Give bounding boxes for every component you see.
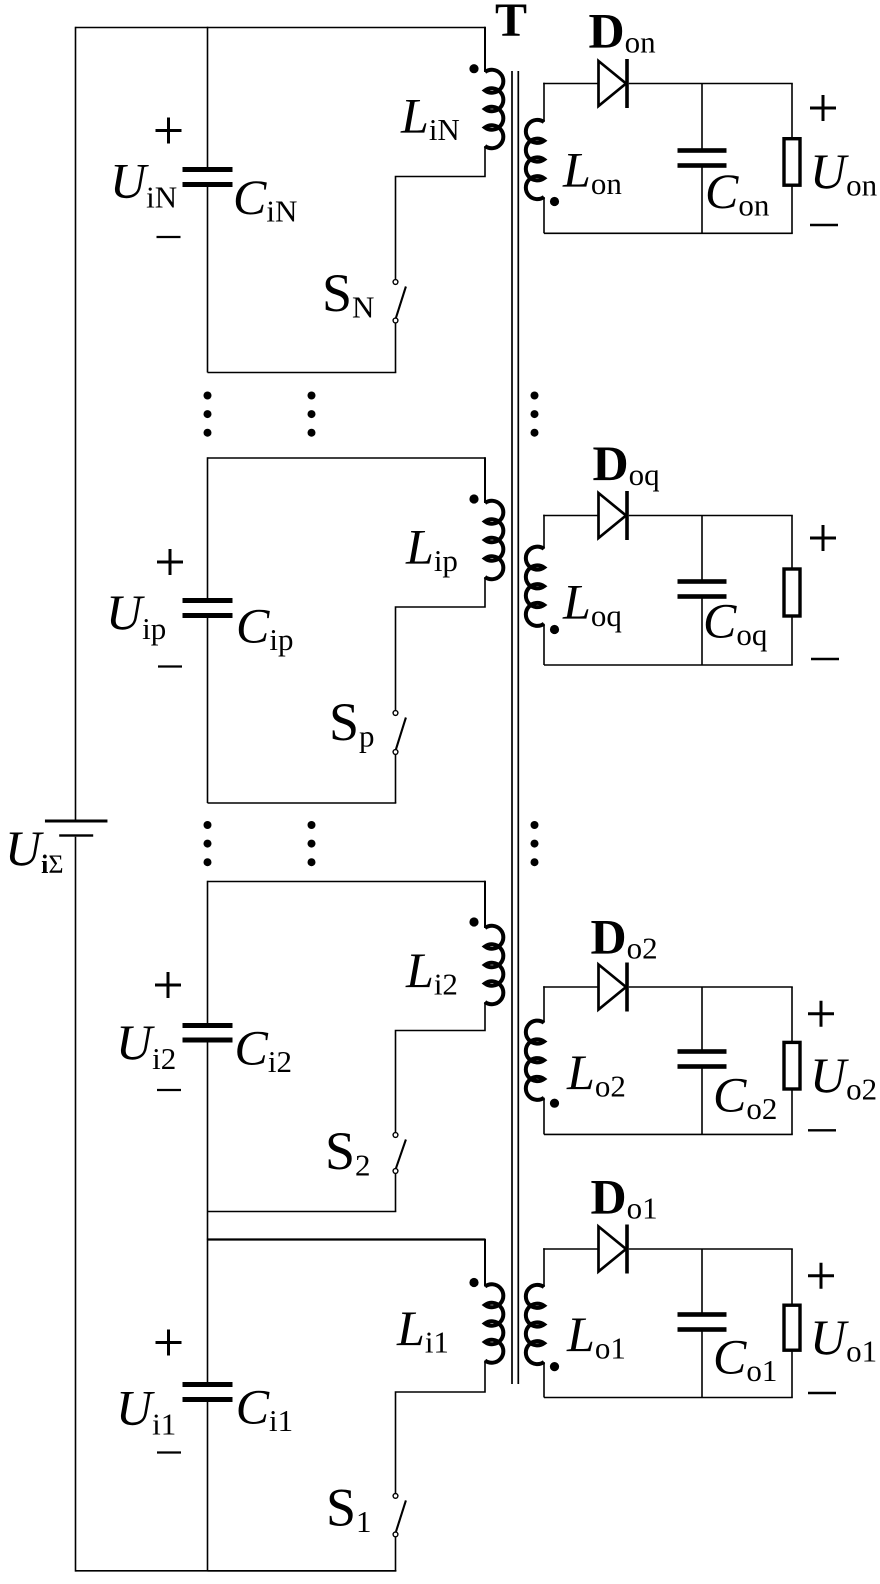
minus polarity mark of U_i1 [157, 1451, 181, 1453]
diode D_o1 [599, 1225, 629, 1274]
polarity dot of winding L_ip [469, 494, 478, 503]
wire: right rail above load resistor [791, 516, 793, 570]
wire: primary branch down to winding L_i2 [484, 881, 486, 928]
switch S_2 [393, 1133, 406, 1174]
plus polarity mark of output q [810, 525, 836, 551]
capacitor C_oq [678, 579, 727, 584]
wire: top rail of input cell p [208, 457, 486, 459]
wire: bottom rail of input cell 1 [208, 1570, 397, 1572]
inductor L_i2 (transformer primary winding) [485, 926, 503, 1005]
wire: top rail of input cell 2 [208, 881, 486, 883]
polarity dot of winding L_o1 [550, 1362, 559, 1371]
polarity dot of winding L_iN [469, 64, 478, 73]
wire: capacitor C_o1 top lead [701, 1249, 703, 1315]
wire: switch S_p to bottom rail [395, 754, 397, 803]
wire: diode cathode to output node [629, 83, 793, 85]
svg-text:Doq: Doq [593, 435, 660, 492]
plus polarity mark of U_i1 [156, 1330, 182, 1356]
wire: capacitor C_i1 bottom lead [207, 1400, 209, 1571]
wire: right rail below load resistor [791, 1089, 793, 1134]
svg-text:S1: S1 [326, 1478, 372, 1540]
svg-text:Ui1: Ui1 [116, 1380, 176, 1442]
wire: winding L_oq bottom lead [543, 624, 545, 665]
wire: right rail above load resistor [791, 987, 793, 1042]
plus polarity mark of output 2 [808, 1001, 834, 1027]
svg-text:UiΣ: UiΣ [5, 820, 63, 879]
load resistor of output 1 [784, 1305, 800, 1350]
polarity dot of winding L_oq [550, 625, 559, 634]
load resistor of output n [784, 139, 800, 186]
switch S_p [393, 711, 406, 755]
svg-text:Co2: Co2 [713, 1067, 777, 1127]
wire: capacitor C_o2 bottom lead [701, 1067, 703, 1135]
svg-text:Uon: Uon [810, 143, 878, 203]
svg-text:Lon: Lon [562, 142, 622, 202]
minus polarity mark of U_ip [158, 665, 182, 667]
wire: capacitor C_ip top lead [207, 457, 209, 600]
wire: switch S_1 to bottom rail [395, 1537, 397, 1571]
svg-text:LiN: LiN [400, 88, 460, 148]
wire: diode cathode to output node [629, 986, 793, 988]
wire: winding bottom to switch S_N [396, 146, 486, 280]
plus polarity mark of U_iN [156, 118, 182, 144]
wire: top rail of input cell 1 [208, 1238, 486, 1240]
svg-text:Li1: Li1 [396, 1300, 449, 1360]
svg-text:Ci2: Ci2 [235, 1020, 292, 1080]
svg-text:Coq: Coq [703, 593, 767, 653]
capacitor C_i2 [183, 1023, 233, 1028]
inductor L_iN (transformer primary winding) [485, 70, 503, 149]
wire: diode cathode to output node [629, 515, 793, 517]
wire: secondary branch top lead of winding L_oq [543, 515, 545, 549]
svg-text:Cip: Cip [236, 598, 293, 658]
wire: primary branch down to winding L_iN [484, 27, 486, 72]
minus polarity mark of output q [811, 658, 839, 660]
svg-text:Lo2: Lo2 [566, 1044, 626, 1104]
svg-text:S2: S2 [325, 1121, 371, 1183]
svg-text:Do2: Do2 [591, 909, 658, 966]
wire: capacitor C_i2 top lead [207, 881, 209, 1026]
wire: winding L_o1 bottom lead [543, 1362, 545, 1398]
svg-text:Sp: Sp [329, 692, 375, 754]
continuation dots between cells N and p, left column [204, 392, 212, 437]
wire: bottom rail of output cell 2 [544, 1133, 793, 1135]
svg-text:Ci1: Ci1 [236, 1379, 293, 1439]
svg-text:Uip: Uip [106, 584, 166, 646]
svg-text:Lip: Lip [405, 519, 458, 579]
minus polarity mark of output n [810, 224, 838, 226]
wire: capacitor C_o2 top lead [701, 987, 703, 1052]
wire: anode lead to diode D_oq [543, 515, 598, 517]
wire: switch S_2 to bottom rail [395, 1173, 397, 1211]
wire: capacitor C_on bottom lead [701, 166, 703, 234]
wire: capacitor C_o1 bottom lead [701, 1330, 703, 1398]
minus polarity mark of U_iN [157, 236, 181, 238]
wire: capacitor C_ip bottom lead [207, 616, 209, 804]
capacitor C_o2 [678, 1049, 727, 1054]
inductor L_oq (transformer secondary winding) [526, 547, 544, 626]
wire: capacitor C_on top lead [701, 84, 703, 151]
svg-text:Co1: Co1 [713, 1329, 777, 1389]
wire: winding L_o2 bottom lead [543, 1098, 545, 1135]
diode D_on [599, 59, 629, 108]
capacitor C_ip [183, 598, 233, 603]
wire: anode lead to diode D_on [543, 83, 598, 85]
svg-text:Li2: Li2 [405, 942, 458, 1002]
wire: bottom rail of input cell p [208, 802, 397, 804]
wire: capacitor C_iN bottom lead [207, 185, 209, 373]
svg-text:Don: Don [589, 3, 657, 60]
switch S_N [393, 280, 406, 323]
wire: switch S_N to bottom rail [395, 323, 397, 373]
continuation dots between cells N and p, middle column [308, 392, 316, 437]
svg-text:Ui2: Ui2 [116, 1014, 176, 1076]
wire: bottom rail of output cell 1 [544, 1397, 793, 1399]
svg-text:SN: SN [322, 263, 374, 325]
wire: capacitor C_i1 top lead [207, 1239, 209, 1385]
wire: secondary branch top lead of winding L_o1 [543, 1248, 545, 1287]
capacitor C_i1 [183, 1382, 233, 1387]
inductor L_ip (transformer primary winding) [485, 501, 503, 580]
plus polarity mark of output 1 [808, 1263, 834, 1289]
svg-text:Lo1: Lo1 [566, 1306, 626, 1366]
load resistor of output q [784, 569, 800, 616]
wire: winding bottom to switch S_1 [396, 1361, 486, 1494]
wire: anode lead to diode D_o2 [543, 986, 598, 988]
wire: diode cathode to output node [629, 1248, 793, 1250]
svg-text:Loq: Loq [562, 574, 622, 634]
svg-text:T: T [495, 0, 527, 47]
wire: main bottom rail [76, 1570, 397, 1572]
svg-text:UiN: UiN [110, 153, 177, 215]
switch S_1 [393, 1494, 406, 1537]
transformer core T [511, 71, 513, 1384]
wire: bottom rail of output cell n [544, 232, 793, 234]
wire: winding L_on bottom lead [543, 197, 545, 233]
load resistor of output 2 [784, 1042, 800, 1089]
wire: capacitor C_i2 bottom lead [207, 1040, 209, 1212]
continuation dots between cells N and p, secondary column [531, 392, 539, 437]
wire: bottom rail of input cell N [208, 372, 397, 374]
plus polarity mark of U_i2 [155, 972, 181, 998]
diode D_o2 [599, 963, 629, 1012]
inductor L_on (transformer secondary winding) [526, 120, 544, 199]
svg-text:CiN: CiN [233, 169, 297, 229]
svg-text:Do1: Do1 [591, 1169, 658, 1226]
wire: primary branch down to winding L_i1 [484, 1239, 486, 1287]
wire: capacitor C_iN top lead [207, 27, 209, 170]
wire: anode lead to diode D_o1 [543, 1248, 598, 1250]
svg-text:Con: Con [705, 163, 770, 223]
wire: right rail below load resistor [791, 185, 793, 233]
wire: secondary branch top lead of winding L_on [543, 83, 545, 122]
polarity dot of winding L_on [550, 197, 559, 206]
minus polarity mark of output 2 [808, 1129, 836, 1131]
svg-text:Uo2: Uo2 [810, 1047, 877, 1107]
wire: right rail above load resistor [791, 84, 793, 139]
polarity dot of winding L_i1 [469, 1278, 478, 1287]
wire: bottom rail of input cell 2 [208, 1211, 397, 1213]
voltage source U_iSigma (battery) [45, 820, 107, 837]
inductor L_o1 (transformer secondary winding) [526, 1285, 544, 1364]
svg-text:Uo1: Uo1 [810, 1309, 877, 1369]
wire: left rail from source down to bottom rail [75, 837, 77, 1572]
polarity dot of winding L_i2 [469, 917, 478, 926]
wire: link between cell 2 bottom rail and cell 1 top rail [207, 1212, 209, 1240]
minus polarity mark of output 1 [808, 1392, 836, 1394]
polarity dot of winding L_o2 [550, 1099, 559, 1108]
wire: capacitor C_oq top lead [701, 516, 703, 582]
continuation dots between cells p and 2, left column [204, 821, 212, 866]
wire: right rail above load resistor [791, 1249, 793, 1305]
inductor L_i1 (transformer primary winding) [485, 1284, 503, 1363]
plus polarity mark of U_ip [157, 549, 183, 575]
capacitor C_on [678, 148, 727, 153]
minus polarity mark of U_i2 [157, 1089, 181, 1091]
wire: capacitor C_oq bottom lead [701, 597, 703, 666]
wire: right rail below load resistor [791, 616, 793, 665]
continuation dots between cells p and 2, secondary column [531, 821, 539, 866]
wire: left rail from top rail down to source U_iSigma [75, 27, 77, 820]
capacitor C_iN [183, 167, 233, 172]
wire: primary branch down to winding L_ip [484, 457, 486, 503]
diode D_oq [599, 491, 629, 540]
continuation dots between cells p and 2, middle column [308, 821, 316, 866]
wire: right rail below load resistor [791, 1350, 793, 1397]
capacitor C_o1 [678, 1312, 727, 1317]
plus polarity mark of output n [810, 95, 836, 121]
wire: winding bottom to switch S_p [396, 577, 486, 711]
wire: secondary branch top lead of winding L_o2 [543, 986, 545, 1023]
wire: bottom rail of output cell q [544, 664, 793, 666]
inductor L_o2 (transformer secondary winding) [526, 1021, 544, 1100]
wire: winding bottom to switch S_2 [396, 1002, 486, 1133]
wire: top rail of input cell N [76, 27, 486, 29]
